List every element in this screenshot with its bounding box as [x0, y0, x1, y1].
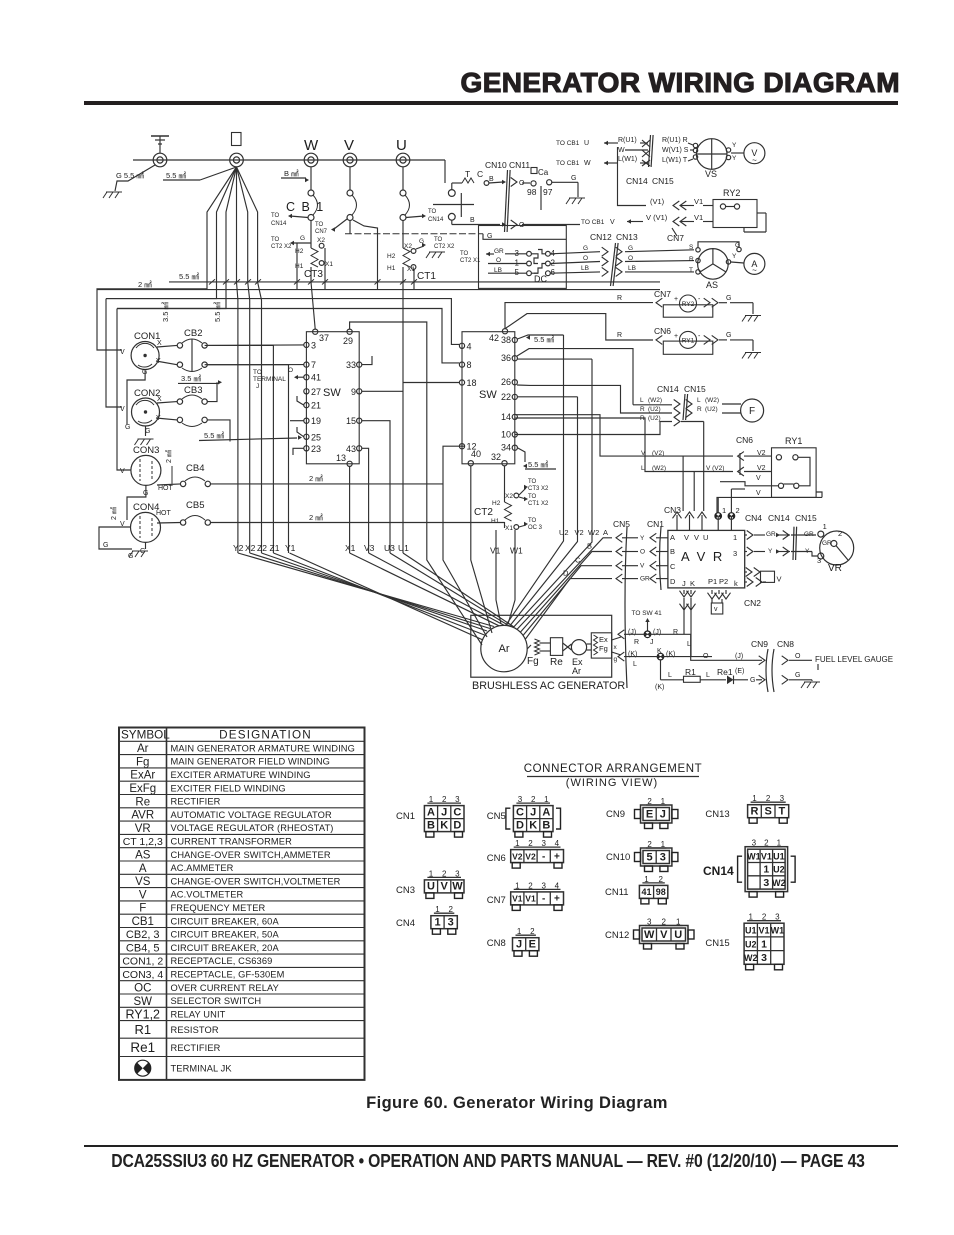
svg-text:+: +	[554, 851, 560, 862]
wire 40 drop	[471, 466, 492, 633]
connector CN4	[745, 513, 762, 523]
connector CN10 (wiring view)	[606, 840, 678, 872]
svg-text:-: -	[542, 894, 545, 905]
svg-text:D: D	[453, 819, 461, 831]
wire DC to CN12 G	[551, 245, 695, 256]
wire AVR J K drops	[680, 598, 696, 657]
svg-text:3: 3	[660, 851, 666, 863]
footer text	[73, 1150, 903, 1172]
armature winding Ar	[481, 625, 527, 671]
label B mm	[281, 169, 309, 182]
label 5.5mm neutral	[163, 171, 200, 180]
wire R(U1) R to VS	[662, 137, 698, 148]
svg-text:A: A	[427, 806, 435, 818]
figure caption	[0, 1094, 954, 1113]
wire V1 W1 from CT2 to Ar	[490, 530, 523, 624]
exciter armature ExAr	[563, 640, 587, 676]
wire jog to CON feeders	[97, 282, 226, 470]
wire TO SW 41	[632, 610, 663, 634]
relay unit RY1 (contact box)	[772, 436, 817, 497]
svg-text:W2: W2	[772, 878, 786, 888]
svg-text:B: B	[427, 819, 435, 831]
wire verticals Y2 X2 Z2 Z1 Y1	[205, 282, 289, 553]
SW contact 12	[459, 442, 476, 452]
automatic voltage regulator AVR box	[668, 530, 745, 588]
svg-text:J: J	[516, 939, 522, 951]
label 5.5mm (32)	[523, 460, 556, 469]
svg-text:3: 3	[448, 917, 454, 929]
wire SW 43 drop	[362, 448, 369, 553]
svg-text:CN10: CN10	[606, 852, 630, 863]
wire SW 13 drop	[349, 467, 351, 554]
over current relay OC contact cross	[433, 193, 474, 217]
wire G tap to CT2 X2 (CT1)	[416, 238, 426, 249]
wire CT taps down	[297, 220, 414, 290]
svg-text:1: 1	[434, 917, 440, 929]
wire W phase to SW 37	[311, 282, 315, 329]
connector CN8 (wiring view)	[487, 927, 539, 956]
svg-text:U: U	[427, 881, 435, 893]
ground (RY2)	[742, 316, 761, 322]
svg-text:+: +	[554, 894, 560, 905]
svg-text:CN7: CN7	[487, 895, 506, 906]
circuit breaker CB3	[177, 385, 207, 427]
connector CN2 below AVR	[680, 590, 762, 614]
wire fuel gauge G to ground	[789, 672, 812, 681]
wire R (U2) to F	[517, 385, 741, 418]
wire CON4 to CB5	[99, 523, 181, 550]
terminal W	[304, 153, 318, 167]
SW contact 37	[313, 329, 329, 343]
wire fan from terminal N	[200, 167, 258, 282]
svg-text:A: A	[542, 806, 550, 818]
wire (V1) row	[650, 197, 713, 210]
svg-text:J: J	[441, 806, 447, 818]
rectifier Re1 (diode)	[717, 667, 762, 684]
svg-text:W2: W2	[744, 953, 758, 963]
label 3.5mm (CB2)	[178, 374, 222, 384]
svg-text:J: J	[530, 806, 536, 818]
wire DC to CN12 O	[551, 255, 695, 266]
SW contact 4	[459, 341, 471, 351]
SW contact 40	[468, 449, 481, 466]
connector CN7 / relay coil RY2	[654, 289, 753, 317]
SW contact 25	[304, 432, 321, 442]
ammeter A	[744, 253, 765, 275]
label 2mm vertical (CON4)	[110, 507, 118, 520]
svg-text:1: 1	[761, 938, 767, 950]
label 5.5mm (38)	[517, 335, 563, 344]
SW contact 22	[501, 392, 517, 402]
svg-text:CN6: CN6	[487, 853, 506, 864]
SW contact 14	[501, 412, 517, 422]
SW contact 15	[346, 416, 362, 426]
svg-text:(WIRING VIEW): (WIRING VIEW)	[566, 777, 658, 789]
wire 5.5mm horizontal	[169, 272, 660, 285]
svg-text:3: 3	[763, 877, 769, 889]
SW contact 13	[336, 453, 352, 466]
connector CN6 / relay coil RY1	[654, 326, 753, 354]
wire 36 to L(W2)	[517, 349, 633, 405]
wire L (W2) row	[515, 418, 733, 472]
wire O row DC	[488, 257, 527, 264]
rectifier DC bridge	[515, 249, 556, 284]
wire L (W2) to F	[633, 397, 741, 409]
connector CN13 (wiring view)	[705, 794, 788, 823]
terminal JK 1	[715, 497, 726, 530]
wire W row	[618, 147, 648, 154]
svg-text:B: B	[542, 819, 550, 831]
svg-text:CN8: CN8	[487, 938, 506, 949]
svg-text:V2: V2	[512, 851, 523, 861]
wire L(W1) T to VS	[662, 155, 698, 164]
svg-text:CN15: CN15	[705, 938, 729, 949]
svg-text:S: S	[764, 806, 771, 818]
SW contact 10	[501, 430, 517, 440]
receptacle CON2	[120, 388, 162, 435]
wire crossing marks	[642, 140, 650, 166]
wire 8 feed	[117, 309, 459, 363]
terminal JK 2	[728, 489, 745, 530]
ground (CT1 G)	[426, 252, 445, 258]
svg-text:R: R	[750, 806, 758, 818]
over current relay OC thermal element	[448, 169, 506, 196]
svg-text:C: C	[516, 806, 524, 818]
ground (left earth)	[103, 192, 122, 198]
svg-text:CONNECTOR ARRANGEMENT: CONNECTOR ARRANGEMENT	[524, 763, 703, 775]
wire 22 to junction	[517, 396, 577, 398]
wire armature outputs U2 V2 W2 A	[517, 528, 612, 639]
svg-text:98: 98	[656, 887, 666, 897]
svg-text:E: E	[646, 808, 653, 820]
svg-text:W1: W1	[747, 851, 761, 861]
wire CON3 HOT to CB4	[127, 484, 181, 520]
terminal N	[230, 153, 244, 167]
connector CN12 (wiring view)	[605, 918, 694, 950]
connector CN5 (wiring view)	[487, 795, 561, 837]
wire 36 to junction	[517, 358, 592, 360]
circuit breaker CB5	[180, 500, 210, 525]
SW contact 23	[304, 444, 321, 454]
node V label	[344, 137, 354, 154]
wire 97 to ground	[552, 175, 578, 197]
svg-text:E: E	[529, 939, 536, 951]
wire 5.5mm CON row	[199, 431, 302, 441]
exciter field ExFg	[587, 633, 612, 658]
connector CN1	[647, 519, 664, 590]
connector CN12 CN13	[590, 232, 638, 286]
svg-text:V1: V1	[759, 926, 770, 936]
wire 18 feed	[403, 382, 459, 384]
wire fan Y2..Y1 into Ar	[238, 553, 494, 640]
SW contact 33	[346, 360, 362, 370]
svg-text:V1: V1	[512, 894, 523, 904]
wire AVR 3 to VR (Y)	[745, 547, 812, 556]
wire AS to A	[698, 242, 744, 264]
wire 12 drop	[443, 446, 487, 637]
wire CB4 feed 2mm	[211, 474, 444, 484]
wire CB3 outputs	[207, 382, 230, 441]
SW contact 41	[304, 373, 321, 383]
svg-text:T: T	[778, 806, 785, 818]
connector CN7 label	[667, 228, 684, 243]
circuit breaker CB2	[177, 328, 207, 372]
svg-text:W: W	[644, 929, 655, 941]
node W label	[304, 137, 319, 154]
svg-text:CN3: CN3	[396, 885, 415, 896]
terminal G	[153, 153, 167, 167]
wire AVR 1 to VR (GR)	[745, 531, 816, 540]
wire CON1 to CB2	[127, 345, 177, 424]
frequency meter F	[741, 399, 764, 422]
svg-text:V1: V1	[525, 894, 536, 904]
wire CB1 V to (V1) row	[618, 147, 647, 206]
svg-text:41: 41	[641, 887, 651, 897]
svg-text:CN9: CN9	[606, 809, 625, 820]
svg-text:D: D	[516, 819, 524, 831]
footer rule	[84, 1145, 898, 1147]
rectifier assembly DC box	[479, 226, 567, 289]
circuit breaker CB4	[180, 463, 210, 487]
voltmeter change-over switch VS	[696, 139, 727, 179]
rectifier Re	[540, 638, 564, 668]
SW contact 9	[351, 387, 362, 397]
wire R (U2) spare	[515, 415, 680, 435]
over current relay OC lower contact	[448, 213, 506, 226]
wire TO CB1 U row	[556, 137, 648, 147]
wire drops to CN3	[681, 422, 704, 512]
wire fan X1 V3 U3 U1 into Ar	[350, 553, 514, 627]
wire R to RY2 coil	[505, 295, 653, 329]
svg-text:C: C	[453, 806, 461, 818]
receptacle CON4	[103, 502, 172, 560]
svg-text:3: 3	[761, 952, 767, 964]
wire fuel gauge O	[789, 653, 893, 670]
wire G tap to CT2 X2	[271, 235, 311, 250]
wire K to R1 row	[655, 660, 684, 691]
wire CN11 pin O lower	[511, 220, 580, 229]
wire LB row DC	[488, 267, 527, 274]
connector CN6 (wiring view)	[487, 839, 564, 868]
wire W(V1) S to VS	[662, 147, 698, 154]
ground (CON2)	[135, 439, 154, 445]
connector CN7 (wiring view)	[487, 881, 564, 910]
wire TO CB1 W row	[556, 156, 648, 167]
relay unit RY2 (contact box)	[713, 188, 766, 232]
terminal V	[343, 153, 357, 167]
current transformer CT2	[474, 493, 519, 532]
svg-text:K: K	[440, 819, 448, 831]
svg-text:U2: U2	[745, 939, 757, 949]
wire top bus	[133, 160, 445, 183]
connector CN4 (wiring view)	[396, 905, 457, 934]
svg-text:V1: V1	[761, 851, 772, 861]
wire 34 hook	[517, 448, 525, 462]
AVR pin labels	[670, 533, 738, 588]
ammeter change-over switch AS	[689, 244, 728, 290]
wire SW 21 25 hooks	[290, 396, 304, 455]
field winding Fg	[527, 639, 540, 667]
wire rows CN5-CN1-AVR	[563, 528, 668, 583]
SW contact 7	[304, 360, 316, 370]
wire V (V2) row	[515, 415, 733, 457]
labels X1 V3 U3 U1	[345, 543, 409, 553]
wire SW 9 drop	[362, 390, 403, 392]
labels Y2 X2 Z2 Z1 Y1	[233, 543, 296, 553]
receptacle CON3	[120, 445, 174, 497]
svg-text:CN13: CN13	[705, 809, 729, 820]
connector CN15 (wiring view)	[705, 913, 784, 970]
wire CB2 to SW3/7	[207, 345, 303, 365]
svg-text:CN5: CN5	[487, 811, 506, 822]
wire DC to CN12 LB	[551, 265, 695, 276]
svg-text:U: U	[674, 929, 682, 941]
wire CN11 pin O upper	[511, 178, 530, 188]
wire AVR row4 to V block	[745, 568, 782, 584]
SW contact 42	[489, 329, 508, 343]
svg-text:W1: W1	[771, 926, 785, 936]
brushless AC generator box	[471, 615, 626, 692]
wire J row to CN9	[691, 634, 762, 660]
circuit breaker CB1	[286, 167, 410, 221]
node N box	[232, 133, 242, 146]
svg-text:-: -	[542, 851, 545, 862]
connector CN5 (harness)	[613, 519, 630, 688]
SW contact 43	[346, 444, 362, 454]
label 2mm vertical (CON3)	[165, 450, 173, 484]
wire U phase long drop	[402, 282, 404, 553]
SW contact 21	[304, 401, 321, 411]
wire G to earth	[115, 165, 155, 191]
current transformer CT3	[295, 220, 333, 282]
wire TO TERMINAL J	[253, 367, 304, 390]
rheostat VR	[812, 522, 854, 574]
svg-text:V: V	[660, 929, 668, 941]
connector CN1 (wiring view)	[396, 795, 464, 837]
wire CT2 X2 taps	[519, 479, 549, 507]
connector CN6 (V2)	[736, 435, 772, 476]
ground symbol (panel earth above terminal G)	[151, 136, 169, 153]
svg-text:U1: U1	[773, 851, 785, 861]
connector CN11 (wiring view)	[605, 875, 668, 904]
SW contact 38	[501, 335, 517, 345]
wire SW 33 riser	[362, 356, 372, 365]
SW contact 36	[501, 353, 517, 363]
selector switch SW right block	[462, 332, 515, 464]
node U label	[396, 137, 407, 154]
svg-text:V: V	[441, 881, 449, 893]
SW contact 18	[459, 378, 476, 388]
ground (OCa)	[566, 198, 585, 204]
selector switch SW left block	[306, 332, 359, 464]
wire CT2 X1 tap	[519, 518, 543, 531]
wire SW 29 riser	[350, 322, 482, 645]
wire VS to V	[726, 142, 744, 162]
wire TO CN14 (W phase tap)	[271, 213, 308, 227]
SW contact 8	[459, 360, 471, 370]
svg-text:V2: V2	[525, 851, 536, 861]
receptacle CON1	[120, 331, 162, 376]
wire 2mm horizontal	[97, 280, 660, 290]
SW contact 27	[304, 387, 321, 397]
svg-text:1: 1	[763, 864, 769, 876]
wire sense wires U2 V2 W2	[506, 335, 592, 627]
SW contact 26	[501, 377, 517, 387]
svg-text:CN4: CN4	[396, 918, 415, 929]
ground (CON4)	[129, 551, 148, 557]
terminal U	[396, 153, 410, 167]
svg-text:CN12: CN12	[605, 930, 629, 941]
relay coil OCa	[527, 168, 553, 211]
svg-text:W: W	[452, 881, 463, 893]
resistor R1	[684, 667, 727, 682]
wire CON2 to CB3	[146, 402, 178, 436]
wire AVR k row	[745, 578, 766, 587]
wire V phase to dash	[349, 221, 351, 234]
wire V rows to RY1 lower contacts	[717, 475, 822, 516]
svg-text:U2: U2	[773, 865, 785, 875]
svg-text:J: J	[660, 808, 666, 820]
wire 4 feed	[106, 299, 459, 345]
connector CN14 CN15 (meter)	[626, 135, 674, 186]
svg-text:CN14: CN14	[703, 864, 734, 878]
SW contact 19	[304, 416, 321, 426]
terminal JK K node	[618, 648, 712, 668]
wire G to DC box	[483, 233, 566, 240]
connector CN3	[664, 505, 707, 530]
title rule	[84, 101, 898, 105]
svg-text:CN1: CN1	[396, 811, 415, 822]
SW contact 3	[304, 340, 316, 350]
voltmeter V	[744, 143, 765, 165]
wire TO CN14 (U phase tap)	[406, 209, 444, 223]
SW contact 29	[343, 329, 353, 346]
connector CN14 CN15 (F meter)	[657, 384, 706, 420]
ground (fuel gauge)	[801, 682, 820, 688]
wire exciter to CN5	[612, 637, 621, 663]
ground (RY1)	[742, 353, 761, 359]
svg-text:5: 5	[647, 851, 653, 863]
connector CN14 CN15 (VR)	[768, 513, 817, 560]
connector CN10 CN11	[485, 160, 530, 232]
terminal JK J node	[618, 629, 691, 648]
wire TO CB1 V row	[581, 213, 713, 226]
label 3.5 vertical	[161, 301, 170, 322]
connector CN3 (wiring view)	[396, 869, 464, 898]
page title	[0, 67, 900, 99]
wire CB5 feed 2mm	[211, 513, 505, 523]
label 5.5 vertical	[213, 301, 222, 322]
svg-text:U1: U1	[745, 926, 757, 936]
wire TO CN7 (V phase tap)	[315, 219, 347, 235]
wire SW 15 drop	[362, 421, 390, 553]
connector arrangement title	[524, 763, 703, 789]
svg-text:K: K	[529, 819, 537, 831]
wire V phase B dashed	[345, 221, 483, 234]
svg-text:CN11: CN11	[605, 887, 629, 898]
connector CN9 (wiring view)	[606, 797, 678, 829]
wire 32 to CT2	[504, 466, 506, 502]
connector CN14 (wiring view)	[703, 839, 795, 897]
wire R to RY1 coil	[505, 314, 653, 340]
current transformer CT1	[387, 220, 436, 282]
SW contact 32	[491, 452, 507, 466]
SW contact 34	[501, 443, 517, 453]
connector CN9 CN8	[751, 639, 794, 692]
wire GR to CT2	[434, 237, 527, 264]
